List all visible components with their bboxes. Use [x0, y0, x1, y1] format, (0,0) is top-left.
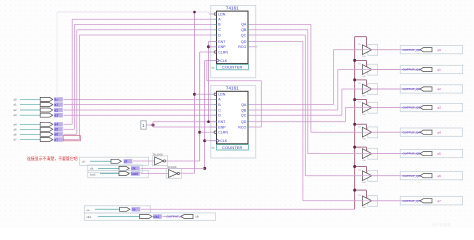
- vcc constant 1 source: [141, 121, 146, 129]
- svg-text:a1: a1: [54, 103, 58, 107]
- svg-text:a5: a5: [54, 128, 58, 132]
- svg-text:ENT: ENT: [218, 120, 226, 124]
- junction EN join: [207, 120, 210, 123]
- counter U1 COUNTER label: [217, 64, 249, 69]
- svg-text:QA: QA: [241, 23, 247, 27]
- svg-text:QD: QD: [241, 120, 247, 124]
- U1 pin ENP: [209, 46, 214, 48]
- svg-text:ENT: ENT: [218, 40, 226, 44]
- svg-text:a5: a5: [14, 127, 18, 131]
- svg-text:a4: a4: [54, 123, 58, 127]
- junction constant: [152, 124, 155, 127]
- svg-text:q4: q4: [438, 130, 442, 134]
- U2 pin LDN: [209, 93, 214, 95]
- svg-text:RCO: RCO: [238, 125, 246, 129]
- wire a6 up to U1: [64, 133, 77, 135]
- wire buffer U10 output: [361, 153, 420, 155]
- svg-text:电子发烧友: 电子发烧友: [432, 222, 451, 227]
- wire U2 output to buffer 3: [252, 114, 342, 116]
- svg-text:a0: a0: [14, 97, 18, 101]
- wire CLRN to U1: [200, 51, 209, 53]
- wire load inverted to LDN bus: [180, 172, 195, 174]
- wire U2 output to buffer 4: [252, 121, 345, 123]
- svg-text:q2: q2: [438, 87, 442, 91]
- svg-text:QA: QA: [241, 103, 247, 107]
- wire buffer U6 output: [361, 69, 420, 71]
- svg-text:clk: clk: [90, 167, 94, 171]
- svg-text:a7: a7: [14, 138, 18, 142]
- output connector q3: [420, 106, 432, 110]
- wire ENT U1 stub: [209, 41, 217, 43]
- U1 pin QA: [248, 23, 250, 25]
- output connector q3 box: [400, 103, 462, 111]
- tri-state buffer U12 enable tap: [353, 189, 356, 192]
- tri-state buffer U9 enable tap: [353, 123, 356, 126]
- tri-state buffer U7 enable tap: [353, 78, 356, 81]
- junction CLRN to U2: [198, 131, 201, 134]
- tri-state buffer U8: [368, 102, 378, 113]
- wire a4 up to U1: [64, 123, 73, 125]
- wire U1 output to buffer 5: [252, 23, 311, 25]
- svg-text:QC: QC: [241, 33, 247, 37]
- U2 pin A: [209, 98, 214, 100]
- svg-text:C: C: [218, 108, 221, 112]
- svg-text:q0: q0: [438, 48, 442, 52]
- svg-text:a2: a2: [14, 108, 18, 112]
- svg-text:q5: q5: [438, 152, 442, 156]
- svg-text:D: D: [218, 33, 221, 37]
- tri-state buffer U10 enable tap: [353, 146, 356, 149]
- svg-text:QC: QC: [241, 114, 247, 118]
- input connector load: [88, 170, 149, 177]
- output connector q7: [420, 199, 432, 203]
- svg-text:clk1: clk1: [153, 215, 159, 219]
- wire a7 up to U1: [64, 139, 80, 141]
- U2 pin RCO: [248, 126, 250, 128]
- wire buffer U8 output: [361, 107, 420, 109]
- wire a1 to U2: [64, 104, 210, 106]
- output connector q1: [420, 67, 432, 71]
- junction CLK to U2: [203, 139, 206, 142]
- wire clk to CLK bus: [141, 167, 205, 169]
- svg-text:OUTPUT_Q4: OUTPUT_Q4: [403, 130, 421, 134]
- wire a2 to U2: [64, 109, 210, 111]
- output connector q5: [420, 152, 432, 156]
- counter U2 COUNTER label: [217, 145, 249, 150]
- counter U2 body: [217, 91, 249, 144]
- svg-text:a4: a4: [14, 122, 18, 126]
- wire U2 RCO to U1 CLK: [252, 126, 261, 128]
- U1 pin B: [209, 23, 214, 25]
- svg-text:OUTPUT_Q7: OUTPUT_Q7: [403, 199, 421, 203]
- svg-text:oe: oe: [132, 208, 136, 212]
- svg-text:a7: a7: [54, 138, 58, 142]
- U1 pin ENT: [209, 41, 214, 43]
- wire buffer U9 output: [361, 131, 420, 133]
- wire CLK bus vertical: [204, 61, 206, 169]
- svg-text:ENP: ENP: [218, 45, 226, 49]
- svg-text:a2: a2: [54, 108, 58, 112]
- svg-text:74LS04D: 74LS04D: [153, 153, 163, 156]
- wire LDN to U2: [195, 93, 210, 95]
- wire from constant to junction: [146, 124, 153, 126]
- svg-text:74161: 74161: [226, 6, 239, 11]
- tri-state buffer U5 enable tap: [355, 36, 367, 38]
- wire CLK to U2: [205, 140, 217, 142]
- wire faint vertical x57: [56, 12, 58, 99]
- svg-text:74LS04D: 74LS04D: [167, 166, 177, 169]
- svg-text:OUTPUT_Q0: OUTPUT_Q0: [403, 48, 421, 52]
- wire clr inverted to CLRN bus: [166, 160, 200, 162]
- svg-text:a0: a0: [54, 98, 58, 102]
- output connector q2 box: [400, 85, 462, 93]
- U2 pin ENP: [209, 126, 214, 128]
- U1 pin RCO: [248, 46, 250, 48]
- tri-state buffer U6 enable tap: [353, 59, 356, 62]
- wire clk1 feed: [163, 216, 182, 218]
- output connector q7 box: [400, 197, 462, 205]
- svg-text:load: load: [90, 172, 96, 176]
- tri-state buffer U7: [368, 84, 378, 95]
- wire a3 to U2: [64, 114, 210, 116]
- wire U1 output to buffer 7: [252, 34, 305, 36]
- tri-state enable bus vertical: [354, 37, 356, 210]
- junction LDN to U2: [193, 93, 196, 96]
- wire U1 RCO stub: [252, 46, 257, 48]
- svg-text:q6: q6: [438, 174, 442, 178]
- U1 pin CLK: [209, 60, 214, 62]
- wire LDN top run: [57, 11, 209, 13]
- inverter U3 (clr): [152, 156, 167, 166]
- wire U2 output to buffer 1: [252, 104, 333, 106]
- input connector clk: [88, 165, 143, 172]
- U2 pin B: [209, 104, 214, 106]
- wire buffer U5 output: [361, 49, 420, 51]
- wire U1 output to buffer 8: [252, 41, 303, 43]
- svg-text:clr: clr: [82, 160, 85, 164]
- wire to U2 ENP: [153, 126, 217, 128]
- wire CLRN bus vertical: [199, 52, 201, 161]
- wire buffer U12 output: [361, 200, 420, 202]
- tri-state buffer U11: [368, 170, 378, 181]
- wire buffer U7 output: [361, 88, 420, 90]
- counter U2 74161 selection box: [211, 86, 256, 158]
- tri-state buffer U5: [368, 44, 378, 55]
- svg-text:ENP: ENP: [218, 125, 226, 129]
- svg-text:LDN: LDN: [218, 93, 226, 97]
- clock feed-through row box: [84, 213, 215, 220]
- tri-state buffer U9: [368, 127, 378, 138]
- U1 pin LDN: [209, 13, 214, 15]
- wire clr to inverter: [133, 160, 155, 162]
- U1 pin A: [209, 18, 214, 20]
- output connector q2: [420, 87, 432, 91]
- U2 pin CLK: [209, 140, 214, 142]
- U2 pin QD: [248, 121, 250, 123]
- wire EN vertical: [208, 42, 210, 122]
- input connector oe: [84, 206, 150, 213]
- svg-text:CLRN: CLRN: [218, 131, 228, 135]
- wire LDN bus vertical: [194, 12, 196, 173]
- input connector clr: [80, 157, 149, 165]
- tri-state buffer U6: [368, 64, 378, 75]
- svg-text:QD: QD: [241, 40, 247, 44]
- svg-text:COUNTER: COUNTER: [222, 145, 242, 150]
- U1 pin D: [209, 34, 214, 36]
- svg-text:a3: a3: [54, 114, 58, 118]
- selection box around a7 label: [63, 136, 80, 141]
- U2 pin QB: [248, 109, 250, 111]
- tri-state buffer U12: [368, 196, 378, 207]
- wire load to inverter: [141, 172, 169, 174]
- svg-text:a3: a3: [14, 113, 18, 117]
- U2 pin QA: [248, 104, 250, 106]
- svg-text:OUTPUT_Q6: OUTPUT_Q6: [403, 174, 421, 178]
- junction ENP U1: [207, 45, 210, 48]
- output connector q5 box: [400, 149, 462, 157]
- wire to U2 ENT: [153, 121, 217, 123]
- wire a5 up to U1: [64, 128, 75, 130]
- svg-text:C: C: [218, 28, 221, 32]
- U1 pin C: [209, 29, 214, 31]
- tri-state buffer U8 enable tap: [353, 98, 356, 101]
- output connector q0 box: [400, 46, 462, 54]
- wire ENP U1 stub: [209, 46, 217, 48]
- svg-text:oe: oe: [87, 208, 91, 212]
- inverter U4 (load): [166, 169, 181, 179]
- wire U1 output to buffer 6: [252, 29, 308, 31]
- wire CLRN to U2: [200, 131, 209, 133]
- svg-text:74161: 74161: [226, 86, 239, 91]
- U2 pin CLRN: [209, 131, 214, 133]
- svg-text:a6: a6: [54, 133, 58, 137]
- counter U1 74161 selection box: [211, 5, 256, 77]
- U1 pin QD: [248, 41, 250, 43]
- wire CLK to U1: [205, 60, 217, 62]
- wire buffer U11 output: [361, 175, 420, 177]
- svg-text:q1: q1: [438, 68, 442, 72]
- svg-text:COUNTER: COUNTER: [222, 65, 242, 70]
- counter U1 body: [217, 11, 249, 64]
- svg-text:load: load: [131, 172, 138, 176]
- wire a0 to U2: [64, 98, 210, 100]
- U1 pin CLRN: [209, 51, 214, 53]
- output connector q1 box: [400, 65, 462, 73]
- svg-text:连接显示不清楚，不要管它吧: 连接显示不清楚，不要管它吧: [27, 156, 78, 161]
- svg-text:q3: q3: [438, 106, 442, 110]
- svg-text:OUTPUT_Q1: OUTPUT_Q1: [403, 68, 421, 72]
- U2 pin D: [209, 114, 214, 116]
- svg-text:CLK: CLK: [220, 59, 228, 63]
- output connector q0: [420, 48, 432, 52]
- wire U2 output to buffer 2: [252, 109, 338, 111]
- output connector q4: [420, 130, 432, 134]
- svg-text:a6: a6: [14, 132, 18, 136]
- svg-text:OUTPUT_Q3: OUTPUT_Q3: [403, 106, 421, 110]
- svg-text:OUTPUT_Q2: OUTPUT_Q2: [403, 87, 421, 91]
- wire oe to enable bus: [141, 208, 355, 210]
- svg-text:clk: clk: [196, 215, 200, 219]
- svg-text:QB: QB: [241, 28, 247, 32]
- output connector clk: [181, 214, 193, 218]
- U2 pin QC: [248, 114, 250, 116]
- svg-text:RCO: RCO: [238, 45, 246, 49]
- svg-text:CLK: CLK: [220, 139, 228, 143]
- junction LDN top: [193, 11, 196, 14]
- svg-text:LDN: LDN: [218, 12, 226, 16]
- U1 pin QC: [248, 34, 250, 36]
- tri-state buffer U10: [368, 148, 378, 159]
- svg-text:clk1: clk1: [87, 215, 92, 219]
- svg-text:D: D: [218, 114, 221, 118]
- output connector q6 box: [400, 172, 462, 180]
- U2 pin ENT: [209, 121, 214, 123]
- svg-text:CLRN: CLRN: [218, 50, 228, 54]
- U2 pin C: [209, 109, 214, 111]
- output connector q6: [420, 174, 432, 178]
- svg-text:a1: a1: [14, 103, 18, 107]
- svg-text:q7: q7: [438, 199, 442, 203]
- output connector q4 box: [400, 128, 462, 136]
- svg-text:QB: QB: [241, 108, 247, 112]
- U1 pin QB: [248, 29, 250, 31]
- svg-text:OUTPUT_Q5: OUTPUT_Q5: [403, 152, 421, 156]
- junction CLK input: [203, 167, 206, 170]
- tri-state buffer U11 enable tap: [353, 165, 356, 168]
